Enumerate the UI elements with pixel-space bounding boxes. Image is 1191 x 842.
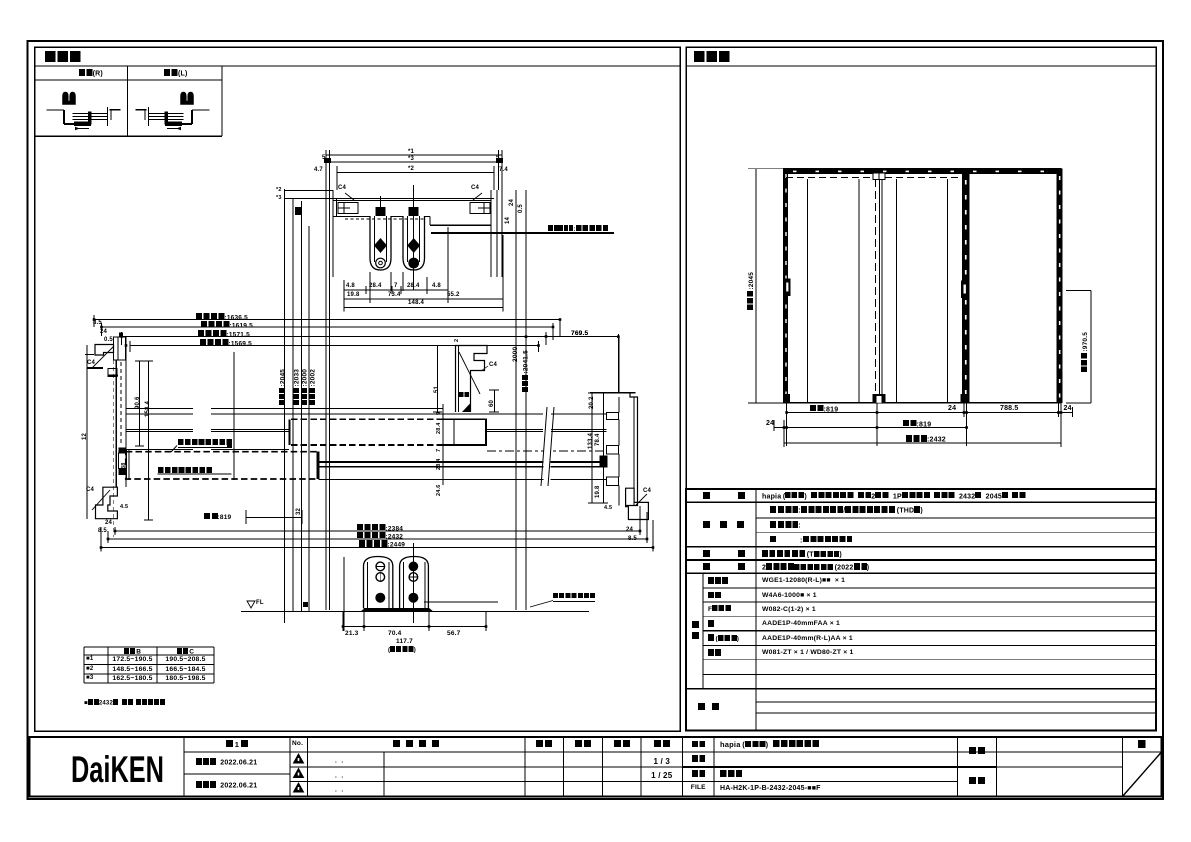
svg-text:DaiKEN: DaiKEN xyxy=(71,749,164,790)
